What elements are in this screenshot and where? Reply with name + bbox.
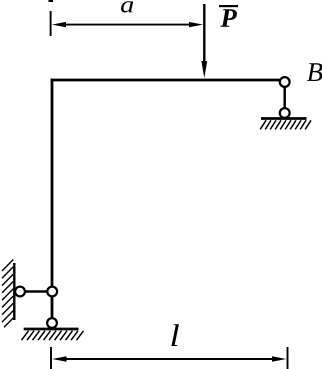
wall line (left support) [13, 263, 15, 320]
wall hatching [2, 260, 13, 328]
force P: arrowhead [201, 61, 207, 78]
label l [172, 324, 179, 346]
dimension l: right extension tick [287, 347, 289, 369]
dimension l: left extension tick [50, 347, 52, 369]
bottom ground line [24, 328, 79, 331]
dimension a: left arrowhead [52, 22, 66, 27]
dimension a: stray tick remnant at top edge [49, 0, 54, 2]
dimension a: right arrowhead [189, 22, 203, 27]
label P [220, 9, 237, 27]
dimension l: right arrowhead [272, 356, 286, 361]
dimension a: left extension tick [50, 11, 52, 36]
horizontal link: wall-side pin circle [15, 287, 25, 297]
bottom pin circle [47, 318, 57, 328]
roller support B: ground hatching [260, 120, 311, 129]
dimension l: dimension line [60, 358, 279, 360]
dimension a: dimension line [60, 24, 196, 26]
label a [121, 1, 133, 12]
column (vertical frame member) [51, 79, 54, 318]
horizontal link: column-side pin circle [47, 287, 57, 297]
bottom ground hatching [22, 331, 84, 340]
beam (horizontal frame member) [51, 79, 280, 82]
force P: line of action [203, 4, 205, 63]
roller support B: link bar [283, 86, 286, 109]
horizontal link bar [25, 290, 48, 293]
label P overbar [219, 5, 238, 7]
label B [307, 63, 322, 81]
roller support B: upper pin circle [280, 77, 290, 87]
dimension l: left arrowhead [52, 356, 66, 361]
roller support B: ground line [261, 117, 307, 120]
roller support B: lower pin circle [280, 108, 290, 118]
